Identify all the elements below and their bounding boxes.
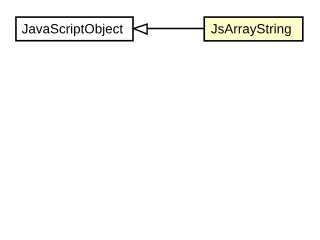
class box JavaScriptObject	[16, 17, 133, 41]
class box JsArrayString (highlighted)	[204, 17, 303, 41]
wire inheritance line	[147, 28, 205, 30]
label JsArrayString	[211, 24, 291, 36]
label JavaScriptObject	[22, 24, 123, 36]
background	[0, 0, 317, 59]
inheritance arrowhead (hollow triangle)	[134, 24, 148, 34]
